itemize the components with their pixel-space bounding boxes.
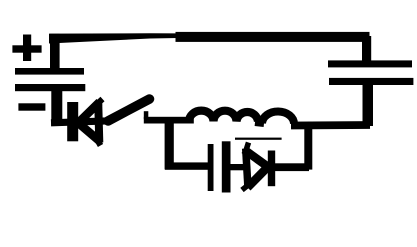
wire top rail right segment <box>176 32 370 42</box>
battery V1 top plate <box>15 68 84 75</box>
wire diode D2 to node B <box>275 163 309 171</box>
wire switch contact to inductor <box>144 111 194 123</box>
wire bottom loop left <box>165 162 208 169</box>
capacitor C2 top plate <box>328 60 412 67</box>
capacitor C2 bottom plate <box>329 78 413 85</box>
battery V1 bottom plate <box>15 84 85 91</box>
diode D1 cathode bar <box>67 102 78 141</box>
diode D1 triangle <box>78 99 102 146</box>
node A wire down <box>165 120 174 170</box>
capacitor C1 left plate <box>208 144 214 191</box>
wire top rail left segment <box>49 33 178 43</box>
diode D2 cathode bar <box>268 151 275 187</box>
inductor L1 <box>189 111 294 124</box>
label line above diode D2 <box>235 138 282 140</box>
wire capacitor C1 to diode D2 <box>229 164 244 170</box>
wire battery negative through diode D1 <box>51 121 110 123</box>
capacitor C1 right plate <box>222 141 231 192</box>
wire capacitor C2 bottom lead <box>363 85 374 126</box>
battery V1 minus sign <box>18 103 45 110</box>
node B wire down <box>304 126 312 170</box>
diode D2 triangle <box>242 143 268 191</box>
wire battery negative lead down <box>51 91 62 126</box>
battery V1 plus sign <box>12 35 41 62</box>
wire bottom right rail <box>291 121 370 129</box>
wire capacitor C2 top lead <box>362 36 371 62</box>
wire battery positive lead up <box>50 34 60 70</box>
switch SW1 lever <box>108 99 150 121</box>
